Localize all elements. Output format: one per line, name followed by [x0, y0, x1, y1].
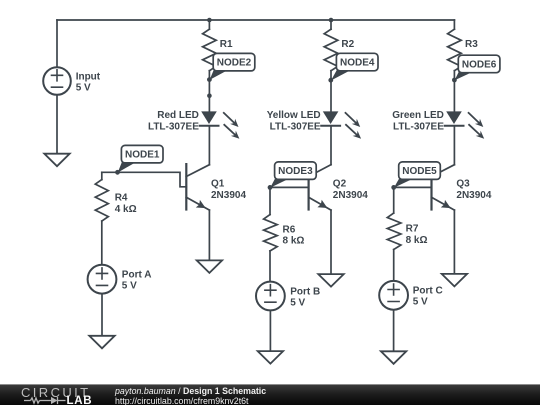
- wire Q2 emitter to ground: [330, 210, 332, 274]
- svg-text:Red LED: Red LED: [157, 110, 199, 121]
- voltage source Port A: [88, 265, 152, 294]
- resistor R1: [203, 29, 217, 70]
- wire PortC to ground: [393, 309, 395, 351]
- ground (Q3 emitter): [442, 274, 467, 287]
- wire LED3 to Q3 collector: [453, 126, 455, 165]
- wire node1 to R4: [101, 172, 103, 179]
- svg-text:NODE6: NODE6: [462, 60, 497, 71]
- svg-text:LTL-307EE: LTL-307EE: [148, 122, 199, 133]
- svg-text:5 V: 5 V: [122, 281, 137, 292]
- svg-text:Input: Input: [76, 71, 101, 82]
- svg-text:NODE3: NODE3: [278, 166, 313, 177]
- ground (Q2 emitter): [318, 274, 343, 287]
- svg-text:Q1: Q1: [211, 179, 225, 190]
- resistor R3: [448, 29, 462, 70]
- svg-text:Q3: Q3: [456, 179, 470, 190]
- svg-text:Port A: Port A: [122, 270, 152, 281]
- svg-text:R2: R2: [341, 39, 354, 50]
- svg-text:LTL-307EE: LTL-307EE: [393, 122, 444, 133]
- transistor Q3: [432, 164, 492, 210]
- wire PortB to ground: [269, 310, 271, 351]
- resistor R6: [264, 215, 278, 251]
- ground (input): [44, 154, 69, 167]
- svg-text:8 kΩ: 8 kΩ: [406, 235, 428, 246]
- wire node3 to R6: [269, 187, 271, 214]
- svg-text:R1: R1: [220, 39, 233, 50]
- CircuitLab logo: [0, 385, 110, 405]
- svg-text:2N3904: 2N3904: [456, 190, 491, 201]
- wire LED1 to Q1 collector: [208, 126, 210, 165]
- svg-text:Port C: Port C: [413, 286, 443, 297]
- wire Q1 emitter to ground: [208, 210, 210, 260]
- LED D2 Yellow: [267, 110, 361, 139]
- node junction dot rail-R2: [329, 18, 334, 23]
- resistor R4: [95, 180, 108, 222]
- svg-text:2N3904: 2N3904: [211, 190, 246, 201]
- LED D3 Green: [392, 110, 484, 139]
- svg-text:4 kΩ: 4 kΩ: [115, 204, 137, 215]
- wire node5 to Q3 base: [394, 186, 432, 188]
- node NODE5: [391, 162, 440, 190]
- svg-text:Green LED: Green LED: [392, 110, 444, 121]
- svg-text:NODE5: NODE5: [402, 166, 437, 177]
- svg-text:LAB: LAB: [67, 395, 93, 405]
- resistor R7: [387, 213, 401, 250]
- node junction dot rail-R1: [207, 18, 212, 23]
- node junction dot below NODE2: [207, 93, 212, 98]
- node NODE6: [452, 55, 500, 82]
- resistor R4 label: [115, 193, 137, 216]
- wire node1 horizontal with step to Q1 base: [102, 172, 187, 187]
- node NODE3: [268, 162, 317, 190]
- wire R1 to LED1: [208, 71, 210, 112]
- transistor Q2: [309, 164, 369, 210]
- node NODE2: [207, 53, 255, 82]
- resistor R7 label: [406, 224, 428, 246]
- resistor R2: [324, 29, 338, 70]
- wire PortA to ground: [101, 293, 103, 336]
- wire LED2 to Q2 collector: [330, 126, 332, 165]
- wire column3 rail to R3: [453, 20, 455, 29]
- svg-text:5 V: 5 V: [290, 297, 305, 308]
- wire column2 rail to R2: [330, 20, 332, 29]
- ground (Port B): [258, 351, 283, 364]
- wire Q3 emitter to ground: [453, 210, 455, 274]
- svg-text:R4: R4: [115, 193, 128, 204]
- voltage source Port B: [256, 282, 320, 311]
- footer bar: [0, 384, 540, 405]
- wire top rail: [57, 19, 454, 21]
- credit text: [115, 386, 266, 405]
- svg-text:Q2: Q2: [333, 179, 347, 190]
- svg-text:5 V: 5 V: [413, 297, 428, 308]
- svg-text:LTL-307EE: LTL-307EE: [270, 122, 321, 133]
- wire R3 to LED3: [453, 71, 455, 112]
- wire R4 to PortA: [101, 221, 103, 265]
- wire R7 to PortC: [393, 250, 395, 282]
- node NODE4: [328, 53, 378, 82]
- svg-text:Yellow LED: Yellow LED: [267, 110, 321, 121]
- svg-text:NODE1: NODE1: [125, 150, 160, 161]
- svg-text:8 kΩ: 8 kΩ: [283, 236, 305, 247]
- svg-text:R7: R7: [406, 224, 419, 235]
- svg-text:R6: R6: [283, 224, 296, 235]
- wire input top: [56, 20, 58, 67]
- wire column1 rail to R1: [208, 20, 210, 29]
- svg-text:NODE2: NODE2: [217, 58, 252, 69]
- ground (Port C): [381, 351, 406, 364]
- wire input bottom: [56, 95, 58, 154]
- resistor R6 label: [283, 224, 305, 246]
- voltage source V1 Input: [43, 67, 101, 95]
- wire R2 to LED2: [330, 71, 332, 112]
- svg-text:R3: R3: [465, 39, 478, 50]
- transistor Q1: [186, 164, 246, 210]
- svg-text:Port B: Port B: [290, 286, 320, 297]
- ground (Q1 emitter): [197, 260, 222, 273]
- wire node5 to R7: [393, 187, 395, 213]
- svg-text:5 V: 5 V: [76, 82, 91, 93]
- svg-text:NODE4: NODE4: [340, 58, 375, 69]
- ground (Port A): [89, 336, 114, 349]
- LED D1 Red: [148, 110, 239, 139]
- svg-text:2N3904: 2N3904: [333, 190, 368, 201]
- voltage source Port C: [379, 281, 443, 310]
- wire node3 to Q2 base: [270, 186, 309, 188]
- node NODE1: [115, 145, 163, 174]
- wire R6 to PortB: [269, 251, 271, 282]
